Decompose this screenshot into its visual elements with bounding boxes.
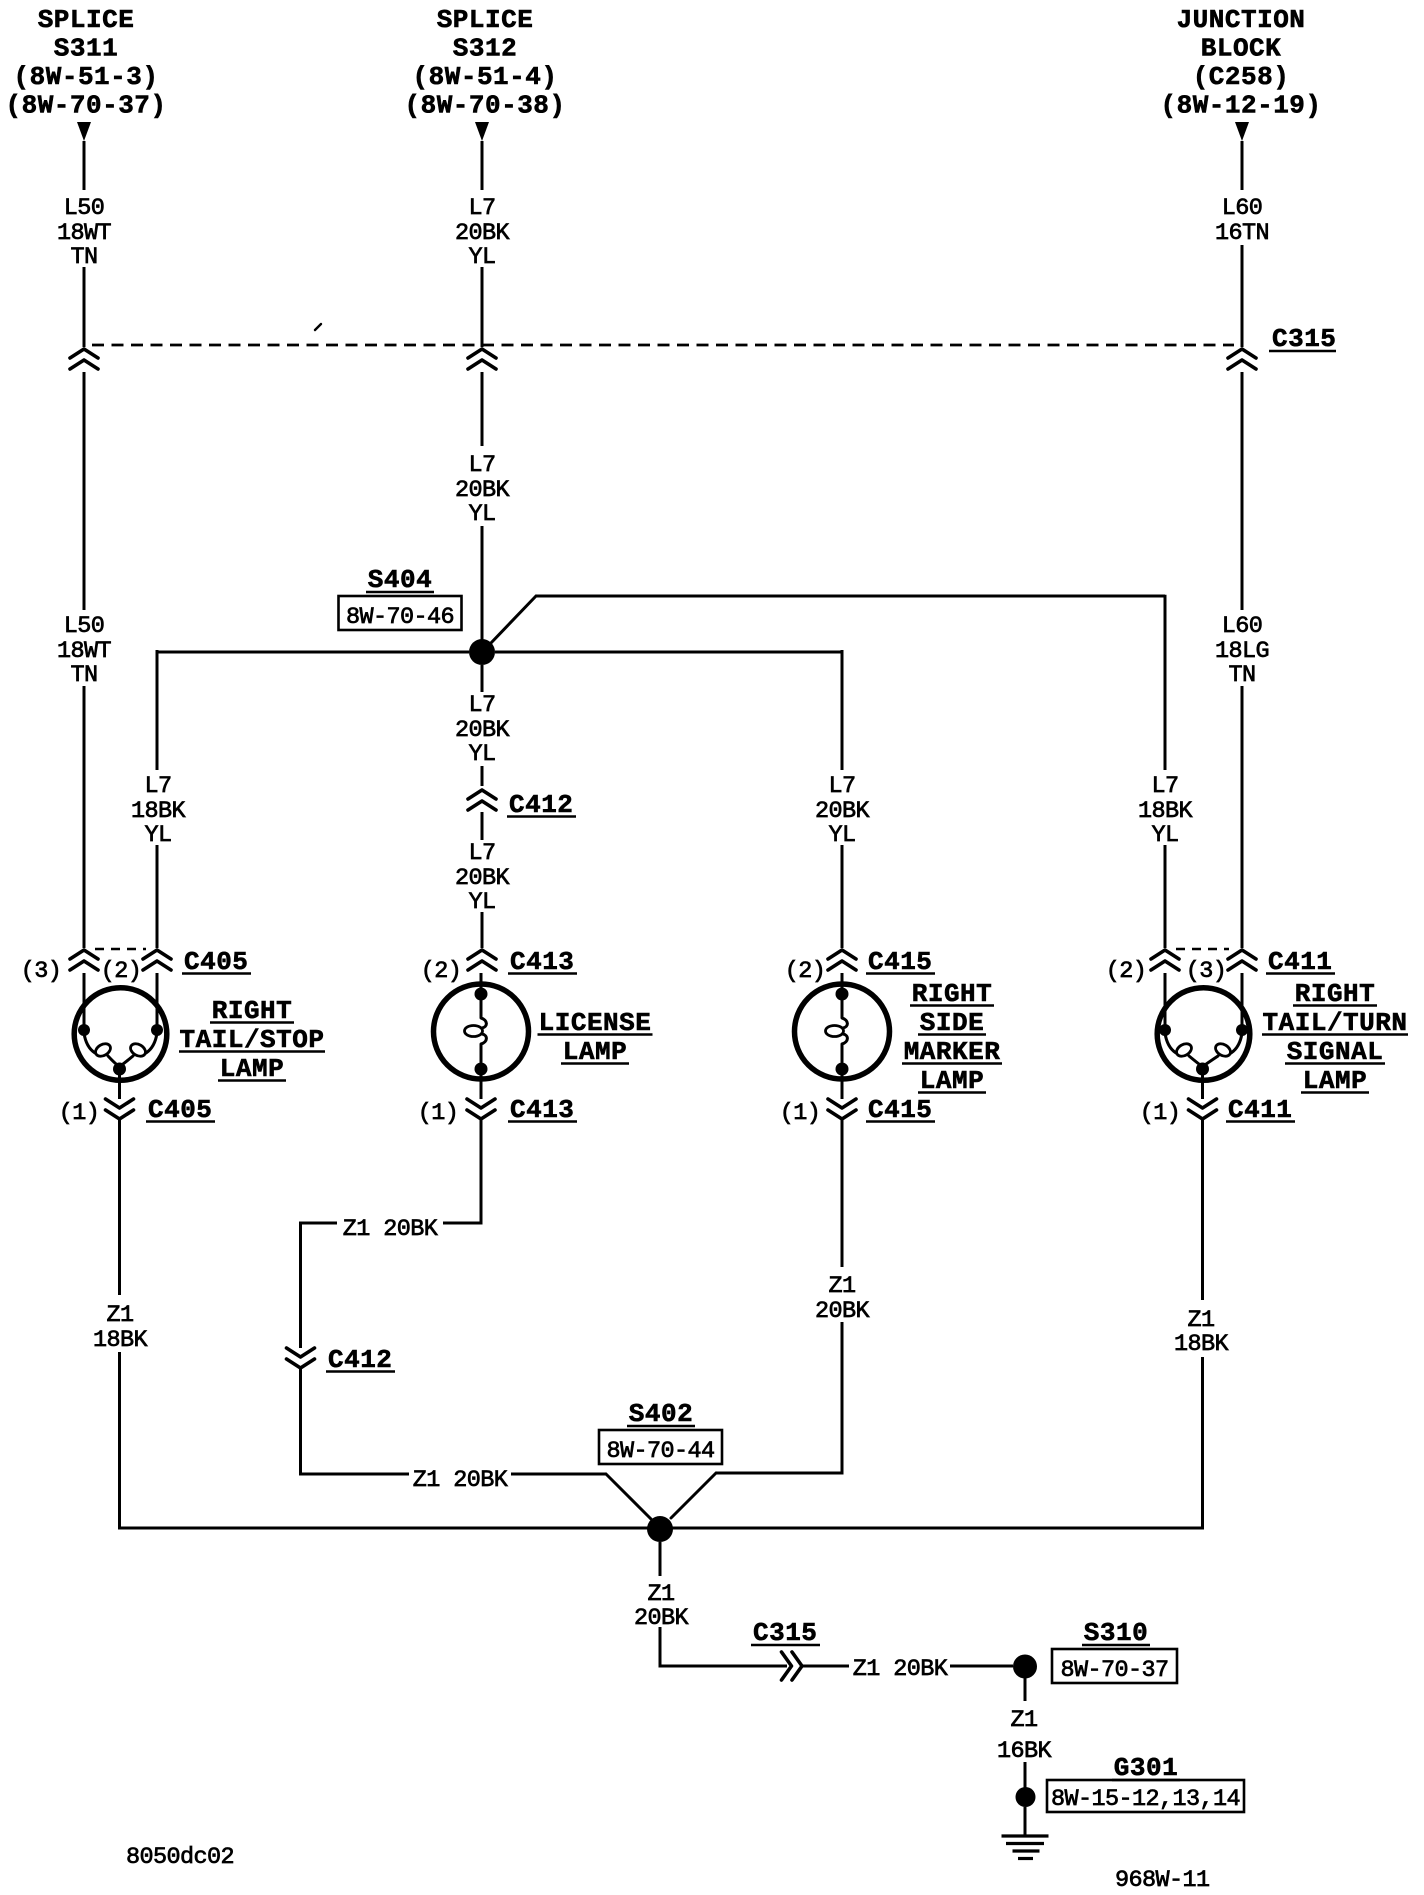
- svg-text:(2): (2): [1106, 958, 1147, 985]
- svg-text:20BK: 20BK: [455, 477, 511, 504]
- wire Z1 from C411 pin 1 down: [1201, 1120, 1204, 1530]
- lamp right tail/stop lamp (bulb): [74, 973, 167, 1080]
- splice S310 junction dot: [1013, 1655, 1037, 1679]
- svg-text:JUNCTION: JUNCTION: [1177, 5, 1306, 35]
- svg-text:968W-11: 968W-11: [1115, 1867, 1210, 1890]
- svg-text:Z1 20BK: Z1 20BK: [853, 1656, 949, 1683]
- label L7 18BK YL (left branch): [131, 773, 187, 849]
- label S404: [366, 565, 434, 595]
- label C415 (bottom): [866, 1095, 935, 1125]
- connector C415 pin 2 chevrons: [828, 950, 856, 970]
- svg-text:S312: S312: [453, 34, 517, 64]
- svg-text:G301: G301: [1114, 1753, 1178, 1783]
- wire L60 from C315 to C411 pin 3: [1241, 372, 1244, 948]
- pin label (1) C413: [418, 1100, 459, 1127]
- connector C405 pin 3 chevrons: [70, 950, 98, 970]
- svg-text:16BK: 16BK: [997, 1738, 1053, 1765]
- label Z1 20BK (to S310): [853, 1656, 949, 1683]
- ground symbol G301: [1002, 1836, 1049, 1859]
- label L7 20BK YL (above license lamp): [455, 840, 511, 916]
- svg-text:L7: L7: [468, 692, 495, 719]
- label C412 (lower): [326, 1345, 395, 1375]
- svg-text:Z1: Z1: [1187, 1307, 1214, 1334]
- wire marker corner to diagonal: [716, 1472, 844, 1475]
- svg-text:18BK: 18BK: [131, 798, 187, 825]
- wire to C315 chevron: [660, 1665, 787, 1668]
- connector C415 pin 1 chevrons: [828, 1099, 856, 1119]
- wire diagonal into S402 (right): [671, 1473, 716, 1518]
- svg-text:18BK: 18BK: [1138, 798, 1194, 825]
- reference box 8W-15-12,13,14: [1047, 1780, 1244, 1813]
- splice S404 junction dot: [469, 639, 495, 665]
- label S402: [627, 1399, 695, 1429]
- wire S404 down to C412: [481, 665, 484, 786]
- svg-text:YL: YL: [1151, 822, 1178, 849]
- connector C315 chevrons on L50: [70, 349, 98, 369]
- label Z1 18BK (right): [1174, 1307, 1230, 1358]
- svg-text:8W-15-12,13,14: 8W-15-12,13,14: [1051, 1786, 1240, 1813]
- pin label (2) C415: [785, 958, 826, 985]
- wire Z1 from C405 pin 1 down: [118, 1120, 121, 1530]
- svg-text:S404: S404: [368, 565, 432, 595]
- svg-text:S402: S402: [629, 1399, 693, 1429]
- arrowhead from splice S311: [77, 122, 91, 141]
- svg-text:Z1: Z1: [1010, 1707, 1037, 1734]
- svg-text:L50: L50: [64, 195, 105, 222]
- label C315 (bottom): [751, 1618, 820, 1648]
- svg-text:(3): (3): [21, 958, 62, 985]
- label Z1 20BK (to S402): [413, 1467, 509, 1494]
- svg-text:L7: L7: [468, 840, 495, 867]
- wire L7 from C315 to S404: [481, 372, 484, 640]
- svg-text:(2): (2): [785, 958, 826, 985]
- svg-text:YL: YL: [468, 889, 495, 916]
- label Z1 20BK (license wire): [343, 1216, 439, 1243]
- label C411 (top): [1266, 947, 1335, 977]
- svg-text:L50: L50: [64, 613, 105, 640]
- wire L50 from C315 to C405 pin 3: [83, 372, 86, 948]
- svg-text:L60: L60: [1222, 613, 1263, 640]
- pin label (2) C405: [101, 958, 142, 985]
- connector C411 dashed link: [1176, 948, 1229, 950]
- wire lamp3 to C415 pin 1: [841, 1075, 844, 1099]
- svg-text:20BK: 20BK: [455, 220, 511, 247]
- svg-text:Z1 20BK: Z1 20BK: [343, 1216, 439, 1243]
- label 968W-11 sheet number: [1115, 1867, 1210, 1894]
- svg-text:SPLICE: SPLICE: [437, 5, 534, 35]
- label C413 (bottom): [508, 1095, 577, 1125]
- svg-text:20BK: 20BK: [815, 798, 871, 825]
- wire lamp1 to C405 pin 1: [118, 1075, 121, 1099]
- label Z1 20BK (below S402): [634, 1581, 690, 1632]
- svg-text:YL: YL: [828, 822, 855, 849]
- label RIGHT TAIL/STOP LAMP: [179, 996, 325, 1084]
- label Z1 18BK (left): [93, 1302, 149, 1354]
- connector C315 dashed line: [92, 344, 1234, 347]
- label C412 (upper): [507, 790, 576, 820]
- label C411 (bottom): [1226, 1095, 1295, 1125]
- svg-text:YL: YL: [468, 244, 495, 271]
- wire Z1 bus to S402: [120, 1527, 1203, 1530]
- label L7 20BK YL (upper middle): [455, 452, 511, 528]
- svg-text:16TN: 16TN: [1215, 220, 1269, 247]
- wire Z1 from C413 pin 1 to corner: [480, 1120, 483, 1223]
- svg-text:Z1: Z1: [647, 1581, 674, 1608]
- svg-text:(C258): (C258): [1193, 62, 1290, 92]
- svg-text:Z1: Z1: [106, 1302, 133, 1329]
- label C315 (top): [1269, 324, 1336, 354]
- label L50 18WT TN (top): [57, 195, 112, 271]
- wire S402 down to corner: [659, 1542, 662, 1668]
- svg-text:8W-70-46: 8W-70-46: [346, 604, 454, 631]
- wire upper branch horizontal: [536, 595, 1165, 770]
- label 8050dc02 sheet code: [126, 1844, 234, 1871]
- wire Z1 20BK horizontal (license): [301, 1222, 483, 1225]
- svg-text:C315: C315: [1272, 324, 1336, 354]
- wire C412 to C413: [481, 812, 484, 840]
- label L60 16TN: [1215, 195, 1269, 247]
- svg-text:BLOCK: BLOCK: [1201, 34, 1282, 64]
- svg-text:TN: TN: [1228, 662, 1255, 689]
- label L7 20BK YL (marker branch): [815, 773, 871, 849]
- connector C411 pin 2 chevrons: [1151, 950, 1179, 970]
- wire G301 dot to ground: [1024, 1807, 1027, 1836]
- svg-text:(3): (3): [1186, 958, 1227, 985]
- connector C405 pin 1 chevrons: [106, 1099, 134, 1119]
- svg-text:Z1: Z1: [828, 1273, 855, 1300]
- pin label (1) C411: [1140, 1100, 1181, 1127]
- svg-text:S310: S310: [1084, 1618, 1148, 1648]
- label Z1 20BK (marker): [815, 1273, 871, 1325]
- wire lamp2 to C413 pin 1: [480, 1075, 483, 1099]
- wire C412 down to corner: [299, 1369, 302, 1476]
- label L60 18LG TN: [1215, 613, 1269, 689]
- wire Z1 from C415 pin 1 down: [841, 1120, 844, 1475]
- pin label (1) C415: [780, 1100, 821, 1127]
- wire S310 to G301: [1024, 1678, 1027, 1788]
- svg-text:YL: YL: [468, 741, 495, 768]
- node SPLICE S311 header: [5, 5, 166, 121]
- pin label (3) C411: [1186, 958, 1227, 985]
- svg-text:20BK: 20BK: [455, 717, 511, 744]
- svg-text:YL: YL: [468, 501, 495, 528]
- node SPLICE S312 header: [404, 5, 565, 121]
- wire S404 diagonal to upper branch: [490, 596, 536, 644]
- svg-text:18WT: 18WT: [57, 638, 112, 665]
- lamp right side marker lamp (bulb): [795, 973, 890, 1079]
- ground G301 junction dot: [1016, 1787, 1036, 1807]
- label L7 20BK YL (below S404): [455, 692, 511, 768]
- label G301: [1112, 1753, 1180, 1783]
- svg-text:(1): (1): [1140, 1100, 1181, 1127]
- splice S402 junction dot: [647, 1516, 673, 1542]
- svg-text:SPLICE: SPLICE: [38, 5, 135, 35]
- svg-text:(8W-70-37): (8W-70-37): [5, 91, 166, 121]
- wire L60 from junction block to C315: [1241, 141, 1244, 347]
- label C405 (bottom): [146, 1095, 215, 1125]
- svg-text:18BK: 18BK: [1174, 1331, 1230, 1358]
- scan tick artifact: [315, 324, 321, 330]
- svg-text:L7: L7: [828, 773, 855, 800]
- svg-text:(8W-12-19): (8W-12-19): [1160, 91, 1321, 121]
- wire license Z1 down to C412: [299, 1222, 302, 1349]
- connector C412 chevrons (upper): [468, 790, 496, 810]
- svg-text:L7: L7: [468, 452, 495, 479]
- wire L50 from S311 to C315: [83, 141, 86, 347]
- svg-text:YL: YL: [144, 822, 171, 849]
- pin label (2) C411: [1106, 958, 1147, 985]
- svg-text:TN: TN: [70, 244, 97, 271]
- connector C411 pin 1 chevrons: [1189, 1099, 1217, 1119]
- svg-text:L60: L60: [1222, 195, 1263, 222]
- wire right branch to C411 pin 2: [1164, 845, 1167, 948]
- pin label (3) C405: [21, 958, 62, 985]
- connector C412 chevrons (lower): [287, 1348, 315, 1368]
- svg-text:(2): (2): [421, 958, 462, 985]
- connector C405 pin 2 chevrons: [143, 950, 171, 970]
- node JUNCTION BLOCK C258 header: [1160, 5, 1321, 121]
- label S310: [1082, 1618, 1150, 1648]
- connector C315 chevrons (bottom): [782, 1652, 803, 1680]
- wire Z1 20BK horizontal to S402: [301, 1473, 607, 1476]
- svg-text:18BK: 18BK: [93, 1327, 149, 1354]
- wire lamp4 to C411 pin 1: [1201, 1075, 1204, 1099]
- label RIGHT SIDE MARKER LAMP: [902, 979, 1002, 1096]
- svg-text:L7: L7: [1151, 773, 1178, 800]
- svg-text:Z1 20BK: Z1 20BK: [413, 1467, 509, 1494]
- svg-text:(1): (1): [418, 1100, 459, 1127]
- svg-text:L7: L7: [144, 773, 171, 800]
- label C415 (top): [866, 947, 935, 977]
- svg-text:C315: C315: [753, 1618, 817, 1648]
- arrowhead from junction block: [1235, 122, 1249, 141]
- svg-text:20BK: 20BK: [815, 1298, 871, 1325]
- svg-text:(1): (1): [780, 1100, 821, 1127]
- connector C413 pin 1 chevrons: [467, 1099, 495, 1119]
- svg-text:(1): (1): [59, 1100, 100, 1127]
- wire diagonal into S402: [606, 1474, 651, 1519]
- connector C315 chevrons on L60: [1228, 349, 1256, 369]
- connector C411 pin 3 chevrons: [1228, 950, 1256, 970]
- lamp right tail/turn signal lamp (bulb): [1157, 973, 1250, 1080]
- label Z1 16BK: [997, 1707, 1053, 1765]
- wire marker branch to C415 pin 2: [841, 845, 844, 948]
- svg-text:8050dc02: 8050dc02: [126, 1844, 234, 1871]
- connector C405 dashed link: [95, 948, 146, 950]
- label LICENSE LAMP: [538, 1008, 653, 1067]
- label L7 18BK YL (right branch): [1138, 773, 1194, 849]
- svg-text:18WT: 18WT: [57, 220, 112, 247]
- svg-text:S311: S311: [54, 34, 118, 64]
- wire S404 to left branch: [157, 650, 469, 770]
- lamp license lamp (bulb): [434, 973, 529, 1079]
- reference box 8W-70-37: [1052, 1649, 1177, 1684]
- label L50 18WT TN (middle): [57, 613, 112, 689]
- svg-text:8W-70-37: 8W-70-37: [1060, 1657, 1168, 1684]
- label L7 20BK YL (top): [455, 195, 511, 271]
- svg-text:TN: TN: [70, 662, 97, 689]
- svg-text:20BK: 20BK: [634, 1605, 690, 1632]
- svg-text:(8W-51-4): (8W-51-4): [413, 62, 558, 92]
- label C405 (top): [182, 947, 251, 977]
- svg-text:(8W-51-3): (8W-51-3): [14, 62, 159, 92]
- arrowhead from splice S312: [475, 122, 489, 141]
- wire into C413: [481, 912, 484, 948]
- wire L7 from S312 to C315: [481, 141, 484, 347]
- reference box 8W-70-44: [599, 1430, 722, 1465]
- svg-text:(2): (2): [101, 958, 142, 985]
- pin label (2) C413: [421, 958, 462, 985]
- label RIGHT TAIL/TURN SIGNAL LAMP: [1262, 979, 1408, 1096]
- wire left branch to C405 pin 2: [156, 845, 159, 948]
- connector C315 chevrons on L7: [468, 349, 496, 369]
- svg-text:18LG: 18LG: [1215, 638, 1269, 665]
- svg-text:20BK: 20BK: [455, 865, 511, 892]
- svg-text:(8W-70-38): (8W-70-38): [404, 91, 565, 121]
- wire C315 to S310: [803, 1665, 1013, 1668]
- svg-text:8W-70-44: 8W-70-44: [606, 1438, 714, 1465]
- svg-text:L7: L7: [468, 195, 495, 222]
- pin label (1) C405: [59, 1100, 100, 1127]
- reference box 8W-70-46: [339, 596, 462, 631]
- label C413 (top): [508, 947, 577, 977]
- connector C413 pin 2 chevrons: [468, 950, 496, 970]
- wire S404 to right branch: [495, 650, 842, 770]
